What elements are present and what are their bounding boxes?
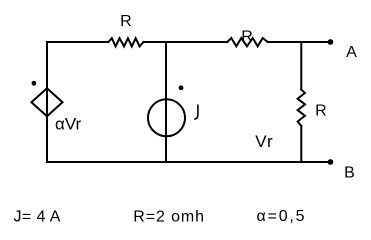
svg-text:R: R — [315, 103, 327, 120]
svg-text:B: B — [344, 165, 355, 182]
resistor R2 (top-right) — [227, 38, 267, 46]
current source J circle — [148, 99, 185, 136]
label J — [195, 105, 198, 119]
svg-text:A: A — [346, 44, 357, 61]
wire middle branch — [165, 42, 167, 162]
dependent source U1 diamond αVr — [31, 88, 62, 116]
svg-text:αVr: αVr — [55, 114, 82, 133]
wire top-left segment — [47, 41, 108, 43]
node B terminal dot — [328, 159, 334, 165]
svg-text:Vr: Vr — [255, 132, 273, 151]
wire bottom — [47, 161, 330, 163]
wire top-middle segment — [144, 41, 228, 43]
svg-text:J= 4 A: J= 4 A — [14, 209, 61, 226]
svg-text:R=2 omh: R=2 omh — [133, 208, 205, 225]
dot marker at current source — [179, 85, 184, 90]
wire top-right segment — [268, 41, 331, 43]
wire left branch — [46, 42, 48, 162]
svg-text:R: R — [120, 13, 132, 30]
resistor R1 (top-left) — [108, 38, 143, 46]
svg-text:R: R — [241, 28, 253, 45]
dot marker at dependent source — [32, 81, 37, 86]
wire right branch lower — [300, 126, 302, 162]
wire right branch upper — [300, 42, 302, 90]
svg-text:α=0,5: α=0,5 — [257, 208, 307, 225]
node A terminal dot — [328, 39, 334, 45]
resistor R3 (right, vertical) — [298, 90, 305, 126]
